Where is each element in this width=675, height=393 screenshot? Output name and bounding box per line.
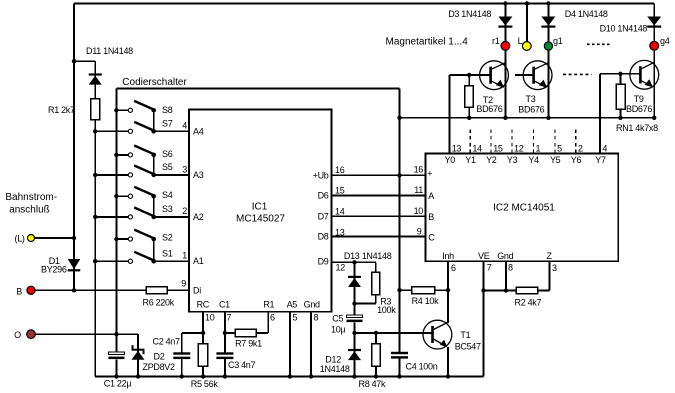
wire switch output to IC1 pin A3 [154, 174, 189, 176]
svg-text:A5: A5 [287, 300, 298, 310]
svg-text:BC547: BC547 [455, 341, 481, 351]
label D12 [325, 355, 341, 365]
label D3 1N4148 [448, 9, 491, 19]
label Bahnstrom- [5, 192, 57, 203]
wire T1 base node row [355, 332, 433, 334]
svg-text:Y6: Y6 [571, 155, 582, 165]
switch S8 [128, 101, 156, 113]
node rail T9 [652, 116, 656, 120]
svg-text:Di: Di [193, 286, 201, 296]
label D1 [49, 256, 60, 266]
label 100k [377, 305, 396, 315]
pin number 13 [335, 228, 345, 238]
capacitor C3 4n7 [216, 352, 233, 359]
capacitor C2 4n7 [173, 352, 190, 359]
pin number 6 [270, 312, 275, 322]
label R1 pin [263, 300, 274, 310]
svg-text:8: 8 [314, 312, 319, 322]
svg-text:D7: D7 [318, 211, 329, 221]
resistor R6 220k [146, 287, 167, 294]
zener diode D2 ZPD8V2 [132, 345, 145, 360]
wire T9 collector-emitter vertical [653, 50, 655, 118]
op-amp IC2 MC14051 box [426, 153, 619, 261]
svg-text:BD676: BD676 [626, 104, 652, 114]
resistor R3 100k [355, 262, 380, 303]
pin number 15 [335, 186, 345, 196]
pin number 7 VE [487, 263, 492, 273]
label A3 [193, 170, 204, 180]
svg-text:S1: S1 [162, 248, 173, 258]
wire dashed stub Y5 [554, 130, 556, 154]
wire switch pair vertical S4-S3 [153, 196, 155, 217]
wire T3 collector-emitter vertical [547, 50, 549, 118]
svg-text:D3 1N4148: D3 1N4148 [448, 9, 491, 19]
svg-text:15: 15 [335, 186, 345, 196]
node rail RN1-1 [467, 116, 471, 120]
label A2 [193, 212, 204, 222]
svg-text:12: 12 [336, 263, 346, 273]
label Y7 [595, 155, 606, 165]
svg-text:8: 8 [508, 263, 513, 273]
wire D2 vertical [136, 334, 140, 378]
label A pin [428, 191, 434, 201]
label Y4 [528, 155, 539, 165]
terminal L yellow [522, 42, 531, 51]
pin number 3 Z [552, 263, 557, 273]
svg-text:+: + [427, 169, 432, 179]
wire D11 branch horizontal [74, 60, 95, 62]
transistor T3 BD676 [523, 61, 552, 90]
svg-text:Y5: Y5 [550, 155, 561, 165]
svg-text:S3: S3 [162, 204, 173, 214]
label C5 [332, 314, 343, 324]
terminal (L) yellow [28, 235, 35, 242]
wire D10 vertical [653, 4, 655, 43]
svg-text:O: O [14, 330, 21, 340]
wire ground rail [95, 376, 484, 378]
svg-text:15: 15 [493, 143, 503, 153]
pin number 2 Y6 [578, 143, 583, 153]
svg-text:MC145027: MC145027 [236, 214, 285, 225]
wire +Ub main vertical [399, 89, 401, 377]
label Y5 [550, 155, 561, 165]
pin number 1 [182, 251, 187, 261]
wire switch bus vertical [115, 89, 117, 335]
svg-text:S2: S2 [162, 233, 173, 243]
label C4 100n [406, 361, 438, 371]
wire +Ub top horizontal [116, 88, 399, 90]
diode D1 BY296 [68, 259, 81, 271]
wire bus to switch S4 [114, 194, 128, 198]
label B pin [428, 212, 434, 222]
label C1 22u [104, 379, 132, 389]
svg-text:anschluß: anschluß [9, 205, 50, 216]
wire switch output to IC1 pin A2 [154, 216, 189, 218]
label R3 [380, 297, 391, 307]
wire T3 base [515, 74, 534, 76]
node C5-D12 junction [352, 331, 356, 335]
label R8 47k [359, 379, 387, 389]
svg-text:VE: VE [478, 251, 490, 261]
capacitor C4 100n [391, 352, 408, 359]
node +Ub-R4 junction [397, 288, 401, 292]
label S5 [162, 162, 173, 172]
svg-text:S6: S6 [162, 149, 173, 159]
wire T2 base [450, 74, 491, 76]
svg-text:S5: S5 [162, 162, 173, 172]
svg-text:D6: D6 [318, 191, 329, 201]
svg-text:(L): (L) [15, 234, 25, 244]
wire bus to switch S6 [114, 153, 128, 157]
label BD676 T3 [518, 104, 544, 114]
svg-text:10µ: 10µ [331, 325, 345, 335]
capacitor C1 22u [108, 352, 124, 359]
svg-text:D2: D2 [154, 352, 165, 362]
wire R7 row [223, 331, 269, 335]
svg-text:C1 22µ: C1 22µ [104, 379, 132, 389]
node T2 base junction [467, 73, 471, 77]
label A5 [287, 300, 298, 310]
svg-text:2: 2 [578, 143, 583, 153]
node R1-A1 junction [93, 259, 97, 263]
resistor R1 2k7 [91, 99, 100, 120]
diode D12 1N4148 [348, 349, 361, 360]
label r1 [492, 36, 500, 46]
label IC2 MC14051 [493, 203, 555, 214]
label Gnd [304, 300, 320, 310]
wire switch output to IC1 pin A1 [154, 260, 189, 262]
svg-text:Bahnstrom-: Bahnstrom- [5, 192, 57, 203]
svg-text:D11 1N4148: D11 1N4148 [86, 46, 133, 56]
switch S5 [128, 166, 156, 178]
node R4-Inh-T1 junction [446, 288, 450, 292]
svg-text:T1: T1 [460, 330, 470, 340]
dashed marks between T3 and T9 [563, 73, 592, 75]
svg-text:4: 4 [182, 120, 187, 130]
wire L vertical [526, 4, 528, 42]
node (L) junction [72, 236, 76, 240]
resistor RN1-1 4k7 [465, 75, 474, 118]
label +Ub [313, 170, 329, 180]
terminal B red [27, 286, 35, 294]
svg-text:IC2 MC14051: IC2 MC14051 [493, 203, 555, 214]
label Y0 [445, 155, 456, 165]
wire R1 line to switch S1 [95, 260, 128, 262]
node D13-R3-C5 junction [352, 301, 356, 305]
label Gnd IC2 [497, 251, 513, 261]
label S3 [162, 204, 173, 214]
diode D3 1N4148 [498, 17, 512, 28]
svg-text:BD676: BD676 [518, 104, 544, 114]
svg-text:C5: C5 [332, 314, 343, 324]
svg-text:D4 1N4148: D4 1N4148 [565, 9, 608, 19]
wire D11/R1 vertical upper [94, 61, 96, 99]
svg-text:D9: D9 [318, 256, 329, 266]
label T3 [526, 94, 536, 104]
label S6 [162, 149, 173, 159]
label S7 [162, 119, 173, 129]
svg-text:10: 10 [414, 206, 424, 216]
wire C1 vertical upper [115, 334, 117, 352]
wire D4 vertical [547, 4, 549, 43]
transistor T1 BC547 [423, 320, 452, 349]
label VE [478, 251, 490, 261]
label Y2 [486, 155, 497, 165]
diode D10 1N4148 [647, 17, 661, 28]
label D2 [154, 352, 165, 362]
svg-text:Y2: Y2 [486, 155, 497, 165]
svg-text:A3: A3 [193, 170, 204, 180]
svg-text:3: 3 [182, 164, 187, 174]
wire +Ub row [332, 174, 426, 176]
label T1 [460, 330, 470, 340]
svg-text:R1 2k7: R1 2k7 [48, 105, 75, 115]
svg-text:5: 5 [293, 312, 298, 322]
label S1 [162, 248, 173, 258]
label Di [193, 286, 201, 296]
svg-text:13: 13 [452, 143, 462, 153]
label D13 1N4148 [344, 251, 392, 261]
wire switch pair vertical S6-S5 [153, 155, 155, 175]
resistor R7 9k1 [235, 329, 256, 336]
wire switch pair vertical S8-S7 [153, 110, 155, 131]
svg-text:A1: A1 [193, 256, 204, 266]
label R1 [48, 105, 75, 115]
switch S4 [128, 187, 156, 199]
label C1 pin [219, 300, 230, 310]
svg-text:7: 7 [487, 263, 492, 273]
wire emitter rail [400, 117, 655, 119]
label R2 4k7 [515, 298, 542, 308]
label B [16, 287, 22, 297]
label S8 [162, 105, 173, 115]
switch S1 [128, 252, 156, 264]
terminal r1 red [501, 41, 510, 50]
wire (L) horizontal [31, 237, 74, 239]
wire Gnd stub IC2 [504, 261, 508, 292]
op-amp IC1 MC145027 box [189, 109, 332, 311]
label C3 4n7 [228, 360, 256, 370]
svg-text:16: 16 [414, 165, 424, 175]
wire Y7 vertical [599, 74, 601, 154]
svg-text:14: 14 [335, 207, 345, 217]
label + pin [427, 169, 432, 179]
svg-text:T9: T9 [634, 94, 644, 104]
label T2 [483, 95, 493, 105]
wire T9 base [600, 73, 640, 75]
wire D12 vertical [352, 333, 356, 379]
pin number 4 [182, 120, 187, 130]
diode D4 1N4148 [541, 17, 555, 28]
node D9-D13 junction [352, 260, 356, 264]
svg-text:4: 4 [602, 143, 607, 153]
label BD676 T9 [626, 104, 652, 114]
pin number 4 Y7 [602, 143, 607, 153]
label D8 [318, 232, 329, 242]
label T9 [634, 94, 644, 104]
pin number 10 IC2 [414, 206, 424, 216]
svg-text:1: 1 [536, 143, 541, 153]
pin number 9 IC2 [417, 226, 422, 236]
svg-text:D10 1N4148: D10 1N4148 [600, 23, 648, 33]
transistor T9 BD676 [630, 60, 659, 89]
label C2 4n7 [153, 336, 181, 346]
svg-text:g4: g4 [660, 36, 670, 46]
svg-text:+Ub: +Ub [313, 170, 329, 180]
node D1-B junction [72, 288, 76, 292]
resistor R2 4k7 [484, 287, 550, 294]
svg-text:R1: R1 [263, 300, 274, 310]
svg-text:6: 6 [451, 263, 456, 273]
pin number 6 Inh [451, 263, 456, 273]
svg-text:16: 16 [335, 165, 345, 175]
switch S3 [128, 208, 156, 220]
svg-text:R5 56k: R5 56k [191, 379, 219, 389]
svg-text:1N4148: 1N4148 [320, 364, 350, 374]
label R7 9k1 [235, 339, 262, 349]
label Y6 [571, 155, 582, 165]
label R5 56k [191, 379, 219, 389]
resistor R4 10k [400, 287, 449, 294]
node C4-rail junction [397, 374, 401, 378]
node +Ub-IC2 junction [397, 173, 401, 177]
terminal g4 red [650, 41, 659, 50]
svg-text:Y7: Y7 [595, 155, 606, 165]
label C pin [428, 232, 435, 242]
svg-text:1: 1 [182, 251, 187, 261]
pin number 12 Y3 [514, 143, 524, 153]
label L [518, 36, 523, 46]
wire D7-B row [332, 215, 426, 217]
switch S7 [128, 122, 156, 134]
svg-text:9: 9 [181, 279, 186, 289]
svg-text:Codierschalter: Codierschalter [122, 77, 187, 88]
svg-text:9: 9 [417, 226, 422, 236]
resistor R8 47k [372, 333, 381, 379]
wire D9 row [332, 261, 376, 263]
svg-text:6: 6 [270, 312, 275, 322]
pin number 13 Y0 [452, 143, 462, 153]
label Y1 [465, 155, 476, 165]
capacitor C5 10u [347, 315, 363, 322]
svg-text:11: 11 [414, 185, 423, 195]
svg-text:Y3: Y3 [507, 155, 518, 165]
label Y3 [507, 155, 518, 165]
wire D8-C row [332, 236, 426, 238]
svg-text:C2 4n7: C2 4n7 [153, 336, 181, 346]
wire top supply rail [74, 3, 654, 5]
svg-text:Magnetartikel 1...4: Magnetartikel 1...4 [386, 37, 469, 48]
label D7 [318, 211, 329, 221]
node L junction top [525, 1, 529, 5]
label Z [547, 251, 553, 261]
svg-text:12: 12 [514, 143, 524, 153]
wire C2 to RC node [182, 331, 206, 335]
wire C1pin stub [224, 312, 226, 333]
node R1-A3 junction [93, 173, 97, 177]
svg-text:D13 1N4148: D13 1N4148 [344, 251, 392, 261]
wire left vertical from top rail to B line [73, 4, 75, 291]
wire A5 stub [288, 312, 292, 379]
wire dashed stub Y3 [511, 130, 513, 154]
svg-text:14: 14 [472, 143, 482, 153]
wire B/Di horizontal [31, 289, 189, 291]
node T9 base junction [618, 72, 622, 76]
label 1N4148 D12 [320, 364, 350, 374]
pin number 8 [314, 312, 319, 322]
node R1-A4 junction [93, 129, 97, 133]
node R8 top junction [374, 331, 378, 335]
node +Ub-rail junction [397, 116, 401, 120]
label D6 [318, 191, 329, 201]
wire D13 vertical [354, 262, 356, 303]
pin number 15 Y2 [493, 143, 503, 153]
wire T1 collector vertical [447, 290, 449, 323]
label O [14, 330, 21, 340]
svg-text:Gnd: Gnd [304, 300, 320, 310]
svg-text:L: L [518, 36, 523, 46]
label 10u [331, 325, 345, 335]
svg-text:C4 100n: C4 100n [406, 361, 438, 371]
svg-text:R2 4k7: R2 4k7 [515, 298, 542, 308]
node rail T3 [546, 116, 550, 120]
label Codierschalter [122, 77, 187, 88]
label RC [197, 300, 210, 310]
wire C5 vertical [354, 304, 356, 334]
label S4 [162, 190, 173, 200]
wire Z stub [548, 261, 550, 290]
node D4 junction top [546, 1, 550, 5]
switch S6 [128, 146, 156, 158]
svg-text:IC1: IC1 [252, 202, 268, 213]
pin number 3 [182, 164, 187, 174]
label g1 [553, 36, 563, 46]
svg-text:R6 220k: R6 220k [143, 298, 175, 308]
diode D13 1N4148 [348, 276, 361, 287]
label Magnetartikel 1...4 [386, 37, 469, 48]
wire D6-A row [332, 195, 426, 197]
node bus-O-C1 junction [114, 332, 118, 336]
dashed marks between g1 and g4 [587, 43, 612, 45]
wire C3 vertical [223, 333, 227, 379]
svg-text:10: 10 [205, 312, 215, 322]
wire R1 line to switch S5 [95, 174, 128, 176]
pin number 7 [227, 312, 232, 322]
terminal O dark red [27, 330, 36, 339]
wire R1 line to switch S7 [95, 130, 128, 132]
svg-text:C1: C1 [219, 300, 230, 310]
label IC1 [252, 202, 268, 213]
label (L) [15, 234, 25, 244]
wire T1 emitter vertical [446, 347, 450, 379]
switch S2 [128, 230, 156, 242]
wire VE vertical [483, 261, 485, 376]
resistor RN1-8 4k7 [616, 74, 625, 118]
svg-text:100k: 100k [377, 305, 396, 315]
wire dashed stub Y2 [490, 130, 492, 154]
svg-text:B: B [428, 212, 434, 222]
wire R1 vertical lower [94, 120, 96, 377]
diode D11 1N4148 [89, 73, 102, 84]
pin number 16 [335, 165, 345, 175]
wire switch output to IC1 pin A4 [154, 130, 189, 132]
label R6 220k [143, 298, 175, 308]
svg-text:RN1 4k7x8: RN1 4k7x8 [616, 123, 658, 133]
transistor T2 BD676 [480, 61, 509, 90]
pin number 12 [336, 263, 346, 273]
wire dashed stub Y4 [532, 130, 534, 154]
svg-text:C: C [428, 232, 435, 242]
